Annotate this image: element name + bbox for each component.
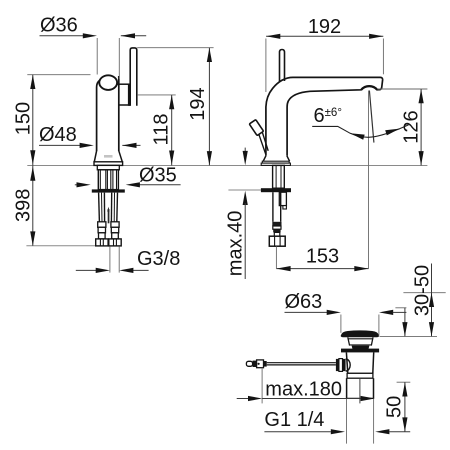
dimension 150 [12, 75, 90, 166]
svg-text:Ø63: Ø63 [285, 291, 323, 313]
plug neck (drain view) [348, 337, 373, 345]
angle arc with arrows [312, 125, 408, 140]
ball joint (side view) [99, 75, 117, 90]
svg-text:50: 50 [384, 396, 406, 418]
dimension O48 [39, 124, 141, 148]
supply hoses (side view) [99, 193, 118, 222]
faucet base flare (side view) [94, 151, 122, 162]
counter max thickness reference line [228, 189, 261, 191]
svg-text:118: 118 [150, 114, 172, 146]
dimension 153 [276, 245, 368, 271]
svg-text:192: 192 [308, 16, 341, 38]
dimension 194 [137, 48, 213, 166]
dimension 30-50 [395, 264, 445, 337]
dimension 50 [384, 382, 411, 432]
hose crimp (front view) [272, 222, 281, 233]
svg-text:Ø35: Ø35 [139, 165, 177, 187]
water jet line [369, 91, 374, 143]
svg-text:150: 150 [12, 102, 34, 135]
KEUCO logo mark [104, 155, 113, 158]
rod clamp joint (drain view) [336, 359, 350, 372]
plug top reference line [380, 335, 438, 337]
lever pin (front view) [280, 50, 285, 82]
pop-up pull rod (side view) [107, 207, 109, 224]
hose connector nuts G3/8 (side view) [96, 239, 122, 246]
dimension 398 [12, 166, 35, 246]
rod knob (drain view) [246, 360, 266, 368]
svg-text:126: 126 [400, 110, 422, 143]
svg-text:153: 153 [306, 245, 339, 267]
base plinth (side view) [94, 162, 123, 166]
svg-text:30-50: 30-50 [411, 265, 433, 316]
dimension 126 [378, 89, 428, 165]
collar below counter (side view) [97, 165, 119, 169]
svg-text:Ø36: Ø36 [40, 15, 78, 37]
dimension max.180 [237, 368, 375, 404]
svg-text:max.40: max.40 [225, 211, 247, 277]
faucet body (side view) [97, 76, 119, 151]
plug seal ring (drain view) [352, 346, 370, 350]
dimension max.40 [225, 148, 248, 279]
mounting flange (side view) [92, 189, 125, 192]
drain tailpipe G1 1/4 (drain view) [347, 378, 374, 403]
dimension O36 [40, 15, 147, 80]
svg-text:Ø48: Ø48 [39, 124, 77, 146]
counter reference line [27, 165, 427, 167]
lever bar (side view) [130, 48, 137, 106]
hose neck (front view) [274, 232, 280, 236]
base (front view) [261, 156, 290, 166]
faucet outline (front view) [266, 77, 383, 155]
dimension O35 [75, 165, 181, 188]
drain flange (drain view) [341, 349, 379, 353]
lever connector (side view) [117, 84, 132, 106]
drain plug cap (drain view) [341, 330, 379, 337]
pop-up rod (drain view) [267, 363, 336, 365]
drain body (drain view) [346, 352, 373, 378]
mounting flange (front view) [261, 188, 291, 192]
svg-text:max.180: max.180 [265, 378, 342, 400]
svg-text:194: 194 [187, 87, 209, 120]
dimension O63 [285, 291, 407, 336]
tailpipe extension lines [347, 398, 374, 443]
dimension 192 [266, 16, 384, 92]
threaded shank (side view) [98, 170, 118, 190]
hose crimp sleeves (side view) [98, 222, 119, 239]
dimension 118 [137, 95, 176, 165]
svg-text:398: 398 [12, 189, 34, 222]
dimension G1 1/4 [264, 409, 410, 434]
angle label 6+-6deg [314, 105, 342, 127]
hose nut (front view) [269, 236, 285, 246]
dimension G3/8 [76, 246, 181, 273]
svg-text:G3/8: G3/8 [137, 248, 180, 270]
hose end reference line (left view) [26, 245, 95, 247]
shank tube (front view) [273, 165, 285, 188]
mounting bolt block (front view) [279, 192, 286, 209]
side lever handle (front view) [249, 120, 268, 154]
svg-text:G1 1/4: G1 1/4 [264, 409, 324, 431]
outlet extension line [368, 91, 370, 269]
supply hose (front view) [273, 192, 281, 222]
